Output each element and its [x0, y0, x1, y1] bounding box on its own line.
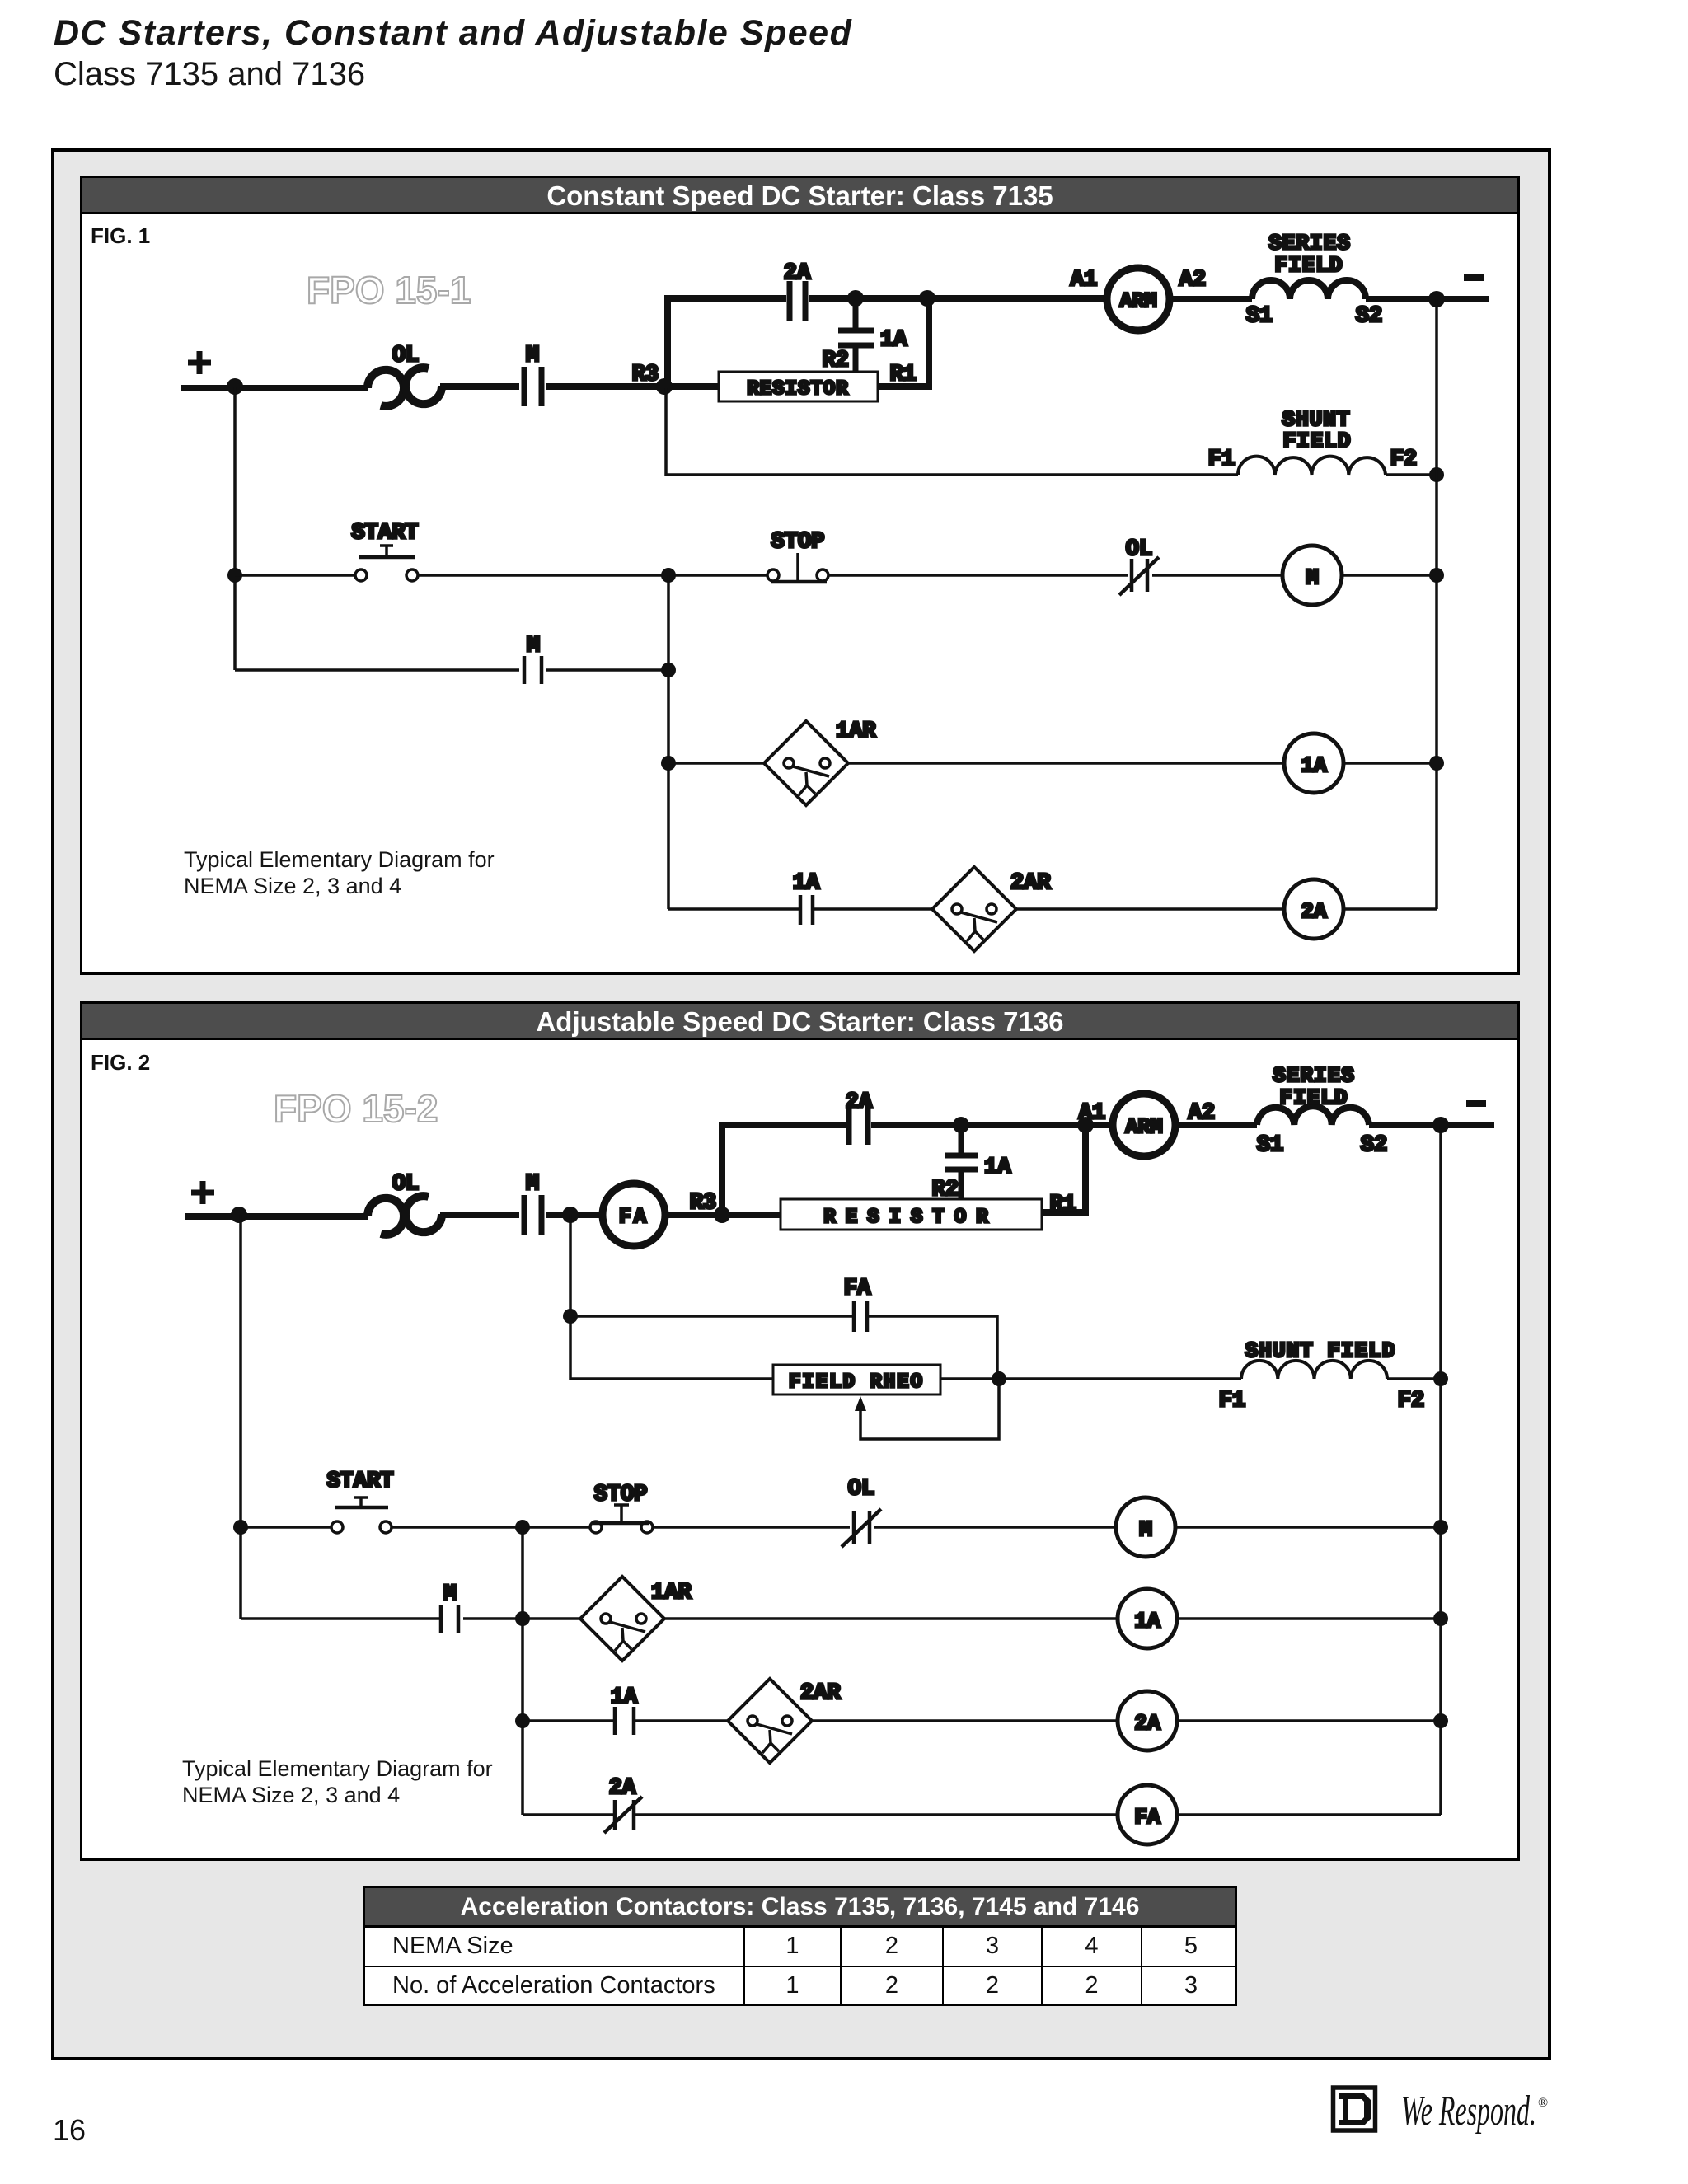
- svg-text:FIELD: FIELD: [1274, 253, 1343, 278]
- junction fig2 1A rail node: [1433, 1611, 1448, 1626]
- wire fig2 right rail: [1439, 1125, 1442, 1815]
- svg-text:FA: FA: [1134, 1805, 1160, 1830]
- svg-text:OL: OL: [392, 1172, 419, 1197]
- overload heater OL fig1: [368, 368, 442, 406]
- wire fig1 start row left: [235, 574, 355, 577]
- inductor series field fig2: [1257, 1106, 1369, 1125]
- svg-text:M: M: [526, 1172, 539, 1197]
- junction fig2 shunt rail node: [1433, 1371, 1448, 1386]
- wire fig1 2A coil to rail: [1343, 907, 1437, 911]
- wire fig1 M coil to rail: [1342, 574, 1437, 577]
- wire fig1 M to resistor: [546, 383, 719, 390]
- junction fig2 center rail start row: [515, 1520, 530, 1535]
- node minus terminal fig1: [1464, 274, 1484, 281]
- svg-text:S2: S2: [1361, 1133, 1387, 1158]
- wire fig1 right rail: [1435, 299, 1438, 909]
- pushbutton STOP fig2: [590, 1505, 653, 1533]
- wire fig2 M aux row left: [241, 1617, 439, 1620]
- svg-text:R3: R3: [690, 1191, 716, 1216]
- wire fig1 1AR to 1A coil: [848, 762, 1284, 765]
- svg-text:M: M: [526, 344, 539, 368]
- junction fig2 M aux node: [515, 1611, 530, 1626]
- wire fig1 1A row left: [668, 762, 764, 765]
- svg-text:F2: F2: [1398, 1389, 1424, 1413]
- wire fig1 OL to M coil: [1152, 574, 1282, 577]
- svg-text:FA: FA: [844, 1277, 871, 1301]
- motor armature ARM fig2: [1113, 1094, 1175, 1156]
- node + terminal fig2: [191, 1181, 214, 1204]
- wire fig2 OL to M: [440, 1212, 519, 1218]
- svg-text:®: ®: [1538, 2096, 1548, 2110]
- svg-text:ARM: ARM: [1125, 1115, 1162, 1139]
- junction fig1 R3 node: [656, 378, 673, 395]
- wire fig1 1A contact to 2AR: [814, 907, 932, 911]
- svg-text:F1: F1: [1219, 1389, 1245, 1413]
- pushbutton STOP fig1: [767, 553, 828, 582]
- svg-text:S1: S1: [1246, 304, 1273, 329]
- wire R1 link fig2: [1042, 1125, 1085, 1212]
- svg-text:S1: S1: [1257, 1133, 1283, 1158]
- wire fig2 FA coil to rail: [1177, 1813, 1441, 1816]
- capacitor-style contact 2A fig2: [849, 1105, 868, 1145]
- svg-text:1A: 1A: [793, 871, 820, 896]
- svg-text:SERIES: SERIES: [1273, 1063, 1355, 1088]
- wire fig2 1A contact to 2AR: [635, 1719, 728, 1722]
- contact M aux fig1: [524, 656, 542, 684]
- node + terminal fig1: [188, 351, 211, 374]
- svg-text:A1: A1: [1079, 1101, 1105, 1126]
- motor armature ARM fig1: [1107, 268, 1170, 330]
- wire fig1 shunt field branch: [666, 388, 1238, 475]
- FPO 15-1 watermark: [307, 268, 471, 312]
- junction fig1 R1 tap: [919, 290, 935, 307]
- contact OL NC fig1: [1119, 557, 1159, 595]
- svg-text:A1: A1: [1071, 268, 1097, 293]
- svg-text:S2: S2: [1356, 304, 1382, 329]
- svg-text:RESISTOR: RESISTOR: [823, 1207, 997, 1229]
- svg-text:START: START: [326, 1469, 393, 1494]
- wire fig2 shunt to rail: [1387, 1377, 1441, 1380]
- svg-text:M: M: [527, 634, 540, 658]
- svg-text:2A: 2A: [784, 261, 811, 286]
- wire fig2 stop to OL: [652, 1526, 850, 1529]
- wire fig2 start row left: [241, 1526, 331, 1529]
- svg-text:1A: 1A: [984, 1155, 1011, 1180]
- wire fig2 2A row left: [523, 1719, 613, 1722]
- wire fig2 ARM to series field: [1175, 1122, 1257, 1128]
- wire fig1 2AR to 2A coil: [1016, 907, 1284, 911]
- wire fig2 M to FA coil: [546, 1212, 603, 1218]
- junction fig1 plus node: [227, 378, 243, 395]
- wire fig1 M branch row: [235, 668, 519, 672]
- wire fig2 2A NC to FA coil: [635, 1813, 1118, 1816]
- junction fig2 1A tap: [953, 1117, 969, 1133]
- wire fig2 1A coil to rail: [1177, 1617, 1441, 1620]
- wire fig2 FA contact to rheostat node: [869, 1316, 997, 1379]
- svg-text:R1: R1: [1050, 1193, 1076, 1217]
- relay contact 2AR fig2: [728, 1679, 812, 1763]
- wire fig2 R3 riser to top branch: [722, 1125, 846, 1215]
- svg-text:We Respond.: We Respond.: [1401, 2088, 1536, 2135]
- svg-text:OL: OL: [848, 1477, 874, 1502]
- wire fig1 2A to A1 junctions: [809, 295, 1107, 302]
- svg-text:STOP: STOP: [771, 530, 825, 555]
- svg-text:2AR: 2AR: [1010, 871, 1051, 896]
- svg-text:ARM: ARM: [1119, 289, 1156, 313]
- wire fig1 main line left: [181, 385, 368, 391]
- fig 1 caption: [184, 846, 495, 899]
- wire fig1 stop to OL: [828, 574, 1128, 577]
- junction fig1 negative rail top: [1428, 291, 1445, 307]
- svg-text:1AR: 1AR: [651, 1581, 692, 1605]
- resistor RESISTOR fig1: [719, 372, 878, 401]
- junction fig1 center rail start row: [661, 568, 676, 583]
- junction fig2 2A row node: [515, 1713, 530, 1728]
- coil 2A fig2: [1118, 1691, 1177, 1750]
- junction fig1 M rail node: [1429, 568, 1444, 583]
- FIG. 1 label: [91, 223, 150, 249]
- logo Square D: [1334, 2088, 1376, 2130]
- svg-text:STOP: STOP: [594, 1483, 648, 1507]
- wire fig2 start to stop: [392, 1526, 590, 1529]
- svg-text:2A: 2A: [846, 1090, 873, 1115]
- wire fig1 1A coil to rail: [1343, 762, 1437, 765]
- wire fig1 ARM to series field: [1170, 296, 1252, 302]
- coil 1A fig1: [1284, 733, 1343, 793]
- junction fig2 negative rail top: [1432, 1117, 1449, 1133]
- svg-text:2A: 2A: [609, 1776, 636, 1801]
- svg-text:1A: 1A: [1134, 1609, 1160, 1633]
- svg-text:SHUNT FIELD: SHUNT FIELD: [1245, 1338, 1396, 1363]
- inductor shunt field fig1: [1238, 457, 1386, 475]
- label SERIES FIELD fig2: [1273, 1063, 1355, 1110]
- wire R1 link fig1: [878, 298, 929, 387]
- relay contact 1AR fig1: [764, 721, 848, 805]
- junction fig2 left rail start row: [233, 1520, 248, 1535]
- wire fig2 2A to ARM: [871, 1122, 1113, 1128]
- wire fig1 shunt to rail: [1386, 473, 1437, 476]
- label SERIES FIELD fig1: [1268, 231, 1351, 278]
- svg-text:M: M: [1306, 565, 1319, 590]
- wire fig1 M branch to rail: [546, 668, 668, 672]
- junction fig2 rheostat output node: [992, 1371, 1006, 1386]
- page number: [53, 2113, 86, 2148]
- page title: [54, 13, 852, 54]
- outer gray frame: [51, 148, 1551, 2060]
- contact 1A aux fig1: [800, 895, 813, 925]
- svg-text:FIELD: FIELD: [1279, 1085, 1348, 1110]
- contact 1A fig2: [945, 1125, 978, 1199]
- svg-text:1A: 1A: [880, 328, 907, 353]
- wiper arrow field rheostat fig2: [855, 1379, 999, 1439]
- wire fig2 2AR to 2A coil: [812, 1719, 1118, 1722]
- wire fig1 2A row left: [668, 907, 799, 911]
- wire fig2 left rail: [239, 1215, 242, 1619]
- wire fig2 2A coil to rail: [1177, 1719, 1441, 1722]
- contact 2A NC fig2: [604, 1797, 642, 1833]
- junction fig2 R3 node: [714, 1207, 730, 1223]
- svg-text:1AR: 1AR: [836, 719, 876, 744]
- junction fig2 FA contact row node: [563, 1309, 578, 1324]
- contact M power fig1: [524, 367, 542, 406]
- svg-text:2AR: 2AR: [800, 1681, 841, 1706]
- contact 1A aux fig2: [615, 1707, 634, 1735]
- wire fig2 center rail: [521, 1527, 524, 1815]
- wire fig2 FA rail: [570, 1215, 773, 1379]
- FPO 15-2 watermark: [274, 1086, 438, 1131]
- svg-text:2A: 2A: [1134, 1711, 1160, 1736]
- svg-text:R3: R3: [632, 363, 659, 387]
- inductor shunt field fig2: [1241, 1361, 1387, 1379]
- wire fig1 OL to M: [440, 383, 519, 390]
- fig 2 caption: [182, 1755, 493, 1808]
- pushbutton START fig1: [355, 546, 418, 581]
- svg-text:OL: OL: [392, 344, 419, 368]
- junction fig2 M rail node: [1433, 1520, 1448, 1535]
- inductor series field fig1: [1252, 280, 1366, 299]
- wire fig1 left rail: [233, 387, 237, 670]
- junction fig1 M branch node: [661, 663, 676, 677]
- svg-text:2A: 2A: [1301, 899, 1327, 924]
- svg-text:OL: OL: [1126, 537, 1152, 562]
- resistor RESISTOR fig2: [781, 1199, 1042, 1230]
- capacitor-style contact 2A fig1: [790, 281, 805, 321]
- junction fig2 plus node: [231, 1207, 247, 1223]
- junction fig1 shunt rail node: [1429, 467, 1444, 482]
- coil M fig1: [1282, 546, 1342, 605]
- label SHUNT FIELD fig1: [1282, 407, 1351, 453]
- wire fig2 FA row left: [523, 1813, 613, 1816]
- svg-text:FIELD RHEO: FIELD RHEO: [789, 1371, 924, 1394]
- coil FA fig2: [1118, 1785, 1177, 1844]
- panel: Constant Speed DC Starter Class 7135: [80, 176, 1520, 975]
- svg-text:M: M: [443, 1582, 457, 1607]
- overload heater OL fig2: [368, 1196, 442, 1235]
- svg-text:RESISTOR: RESISTOR: [747, 378, 848, 401]
- node minus terminal fig2: [1466, 1100, 1486, 1107]
- coil M fig2: [1116, 1497, 1175, 1557]
- contact FA fig2: [854, 1301, 867, 1332]
- svg-text:F1: F1: [1208, 448, 1235, 472]
- coil FA power fig2: [603, 1183, 665, 1246]
- junction fig2 2A rail node: [1433, 1713, 1448, 1728]
- svg-text:1A: 1A: [611, 1685, 638, 1710]
- svg-text:START: START: [351, 521, 418, 546]
- svg-text:FA: FA: [619, 1205, 649, 1229]
- wire fig2 series field to minus: [1369, 1122, 1494, 1128]
- wire fig1 start to center rail: [418, 574, 767, 577]
- contact M aux fig2: [441, 1605, 458, 1633]
- svg-text:FIELD: FIELD: [1282, 429, 1351, 453]
- junction fig1 1A tap: [847, 290, 864, 307]
- pushbutton START fig2: [331, 1497, 392, 1533]
- relay contact 2AR fig1: [932, 867, 1016, 951]
- FIG. 2 label: [91, 1050, 150, 1076]
- svg-text:SERIES: SERIES: [1268, 231, 1351, 255]
- junction fig1 1A rail node: [1429, 756, 1444, 771]
- contact OL NC fig2: [842, 1509, 881, 1547]
- wire fig1 R3 riser to top branch: [668, 298, 786, 387]
- svg-text:M: M: [1139, 1517, 1152, 1542]
- coil 1A fig2: [1118, 1589, 1177, 1648]
- wire fig2 rheo to shunt coil: [940, 1377, 1241, 1380]
- svg-text:F2: F2: [1390, 448, 1417, 472]
- wire fig2 FA to resistor: [665, 1212, 781, 1218]
- wire fig2 1AR to 1A coil: [664, 1617, 1118, 1620]
- junction fig1 left rail start row: [227, 568, 242, 583]
- wire fig2 OL to M coil: [874, 1526, 1116, 1529]
- relay contact 1AR fig2: [580, 1577, 664, 1661]
- contact 1A fig1: [838, 298, 874, 373]
- wire fig2 main line left: [185, 1213, 368, 1220]
- logo We Respond: [1401, 2088, 1548, 2135]
- svg-text:A2: A2: [1179, 268, 1206, 293]
- svg-text:R1: R1: [890, 363, 917, 387]
- coil 2A fig1: [1284, 879, 1343, 939]
- svg-text:R2: R2: [823, 349, 849, 373]
- wire fig1 center rail lower: [667, 575, 670, 909]
- junction fig1 1A row node: [661, 756, 676, 771]
- svg-text:1A: 1A: [1301, 753, 1327, 778]
- wire fig2 FA contact row: [570, 1315, 852, 1318]
- wire fig2 M aux to center rail: [463, 1617, 580, 1620]
- acceleration contactors table: [363, 1886, 1237, 2006]
- junction fig2 FA branch node: [562, 1207, 579, 1223]
- junction fig2 A1 tap: [1077, 1117, 1094, 1133]
- resistor FIELD RHEO fig2: [773, 1365, 940, 1394]
- contact M power fig2: [524, 1195, 542, 1235]
- wire fig2 M coil to rail: [1175, 1526, 1441, 1529]
- wire fig1 series field to minus: [1366, 296, 1489, 302]
- panel: Adjustable Speed DC Starter Class 7136: [80, 1001, 1520, 1861]
